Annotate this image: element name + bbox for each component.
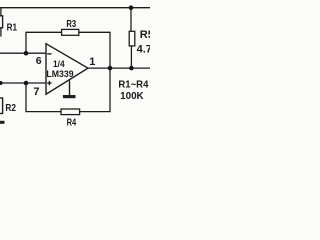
label R1~R4 100K bbox=[118, 80, 148, 102]
wire R3 feedback: up from pin6 node, right to output node bbox=[26, 32, 110, 68]
svg-text:6: 6 bbox=[36, 55, 42, 67]
node: left edge pin7 wire end bbox=[0, 81, 3, 85]
wire non-inverting input (pin 7 net) bbox=[0, 82, 46, 84]
wire R5 bottom: from R5 down to output net bbox=[130, 46, 132, 68]
svg-text:R3: R3 bbox=[66, 18, 76, 30]
svg-text:100K: 100K bbox=[120, 91, 144, 102]
svg-text:R4: R4 bbox=[67, 117, 77, 129]
svg-text:1: 1 bbox=[89, 56, 95, 68]
node: supply / R5 junction bbox=[129, 5, 134, 10]
svg-text:R1~R4: R1~R4 bbox=[118, 80, 148, 91]
ground (below R2, cut at left edge) bbox=[0, 121, 5, 124]
svg-text:4.7K: 4.7K bbox=[137, 44, 150, 56]
wire output (pin 1 net) bbox=[88, 67, 150, 69]
wire top supply rail bbox=[0, 7, 150, 9]
node: pin7 / R4 junction bbox=[24, 81, 29, 86]
wire R1 top stub bbox=[0, 8, 2, 16]
resistor R4 bbox=[61, 109, 80, 129]
svg-text:R2: R2 bbox=[5, 102, 16, 114]
wire R4 path: down from pin7 node, right along bottom, up to output node bbox=[26, 68, 110, 112]
node: output / R5 junction bbox=[129, 66, 134, 71]
wire R1 bottom stub bbox=[0, 28, 2, 37]
non-inverting input marker bbox=[47, 81, 51, 85]
resistor R2 (cut at left edge) bbox=[0, 98, 16, 114]
resistor R3 bbox=[62, 18, 79, 35]
resistor R1 (cut at left edge) bbox=[0, 16, 17, 34]
svg-text:R5: R5 bbox=[140, 29, 150, 41]
op-amp U1 1/4 LM339 bbox=[46, 44, 88, 94]
node: pin6 / R3 junction bbox=[24, 51, 29, 56]
ground (op-amp) bbox=[63, 81, 76, 99]
svg-text:R1: R1 bbox=[7, 21, 18, 33]
node: output / feedback junction bbox=[108, 66, 113, 71]
inverting input marker bbox=[47, 53, 51, 55]
wire R5 top: from supply rail down to R5 bbox=[130, 8, 132, 32]
wire inverting input (pin 6 net) bbox=[0, 52, 46, 54]
svg-text:7: 7 bbox=[33, 86, 39, 98]
svg-text:LM339: LM339 bbox=[46, 69, 73, 80]
resistor R5 bbox=[129, 29, 160, 56]
